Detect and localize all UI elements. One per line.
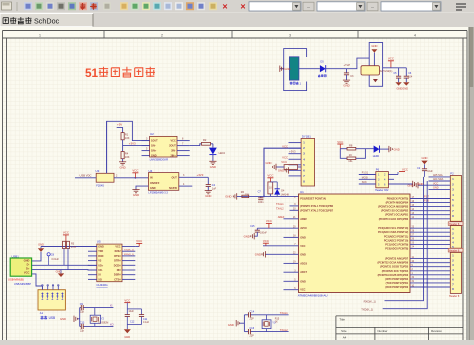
- svg-text:DSR#: DSR#: [114, 274, 121, 277]
- resistor R9 with VCC and ground: [266, 160, 302, 170]
- svg-text:+5V: +5V: [117, 123, 122, 127]
- svg-text:+3V3: +3V3: [289, 149, 296, 153]
- svg-text:GND: GND: [284, 67, 290, 71]
- svg-text:1N4148: 1N4148: [281, 193, 290, 196]
- svg-text:Title: Title: [339, 318, 345, 322]
- crystal Y3: [262, 315, 280, 332]
- svg-text:VCC: VCC: [300, 245, 305, 248]
- wire LED to ground: [212, 155, 214, 162]
- wire diode to transistor: [326, 58, 370, 69]
- wire JP1 to reset: [264, 148, 301, 196]
- svg-text:AREF: AREF: [278, 216, 285, 219]
- capacitor C14: [249, 310, 255, 320]
- capacitor C7: [258, 191, 265, 204]
- svg-text:C13: C13: [80, 322, 85, 325]
- svg-text:1OUT: 1OUT: [151, 140, 158, 143]
- svg-text:F2045: F2045: [96, 183, 104, 187]
- svg-text:PC1(ADC1 PCINT9): PC1(ADC1 PCINT9): [385, 243, 408, 246]
- toolbar icon at x=79: [79, 2, 87, 10]
- svg-text:OUT: OUT: [172, 177, 178, 180]
- svg-text:Header 6: Header 6: [449, 249, 460, 252]
- svg-text:A1: A1: [40, 311, 44, 315]
- svg-text:RXD(K_1): RXD(K_1): [124, 254, 134, 256]
- svg-text:100nF: 100nF: [260, 232, 267, 235]
- wire U4 pin4: [179, 183, 193, 186]
- svg-text:IN: IN: [150, 177, 153, 180]
- svg-text:D-: D-: [27, 263, 30, 267]
- svg-text:VCC: VCC: [115, 246, 120, 249]
- svg-text:VCC: VCC: [337, 140, 343, 144]
- svg-text:(PCINT3 OC2A MOSI)PB3: (PCINT3 OC2A MOSI)PB3: [378, 206, 409, 209]
- capacitor C8: [47, 253, 59, 266]
- toolbar: [0, 0, 474, 13]
- svg-text:AVCC: AVCC: [300, 227, 307, 230]
- toolbar combo box 2: [317, 2, 365, 11]
- svg-text:11.0592M: 11.0592M: [98, 322, 108, 324]
- svg-text:PC3(ADC3 PCINT11): PC3(ADC3 PCINT11): [384, 235, 408, 238]
- svg-text:USB-MINIB5P: USB-MINIB5P: [14, 282, 31, 286]
- svg-text:22P: 22P: [250, 318, 255, 321]
- wire +5V rail: [107, 121, 150, 173]
- power port VCC JP1 b: [282, 156, 288, 160]
- P6 right wire middle: [388, 178, 394, 180]
- U5 left pin wires: [88, 247, 97, 280]
- wire TXD to U1: [383, 181, 428, 309]
- svg-text:(RXD PCINT16)PD0: (RXD PCINT16)PD0: [385, 286, 408, 289]
- capacitor C5: [393, 68, 401, 82]
- ground right of LED D1: [389, 146, 400, 152]
- svg-text:2OUT: 2OUT: [169, 145, 176, 148]
- toolbar icon at x=142: [142, 2, 150, 10]
- net label +5V: [117, 123, 122, 127]
- ground U5 top: [38, 242, 44, 252]
- ground below C4: [205, 191, 212, 199]
- ground reset left: [225, 193, 236, 199]
- svg-text:22p: 22p: [80, 329, 85, 332]
- wire buzzer to diode: [299, 68, 320, 70]
- svg-text:GND: GND: [124, 335, 130, 339]
- power port VCC LED: [337, 140, 343, 149]
- capacitor C16: [249, 327, 255, 338]
- svg-text:10uF: 10uF: [128, 310, 134, 313]
- svg-text:VCC: VCC: [267, 174, 273, 178]
- svg-text:A4: A4: [343, 335, 347, 339]
- ground below C3: [343, 80, 350, 88]
- svg-text:D5: D5: [320, 60, 324, 64]
- resistor R2: [202, 138, 211, 145]
- svg-text:Number: Number: [378, 329, 388, 333]
- regulator U4: [148, 169, 178, 195]
- svg-text:P6: P6: [376, 167, 380, 171]
- svg-text:USB VDC: USB VDC: [80, 174, 92, 178]
- wire usb d-: [32, 264, 97, 266]
- svg-text:10K: 10K: [125, 155, 130, 159]
- connector A1: [38, 285, 65, 321]
- banner text 51 forum: [85, 66, 155, 80]
- capacitor C11: [127, 309, 149, 329]
- op-amp U2: [150, 132, 177, 161]
- svg-text:...: ...: [371, 4, 375, 9]
- header8 label mid: [448, 222, 463, 226]
- ground below R4: [119, 162, 126, 170]
- svg-text:TXD: TXD: [98, 250, 103, 253]
- svg-text:(PCINT2 SS OC1B)PB2: (PCINT2 SS OC1B)PB2: [381, 210, 409, 213]
- svg-text:GND: GND: [228, 323, 234, 327]
- svg-text:C12: C12: [130, 320, 135, 323]
- U1 right pin wires: [410, 197, 450, 287]
- svg-text:GND: GND: [300, 236, 306, 239]
- svg-text:R232: R232: [115, 250, 122, 253]
- toolbar icon at x=68: [68, 2, 76, 10]
- wire divider middle node: [123, 140, 150, 152]
- connector P2 header8 top: [450, 172, 461, 222]
- JP1 left pin wires: [289, 143, 302, 176]
- P6 right wires VCC: [388, 167, 408, 174]
- toolbar combo box 3: [381, 2, 441, 11]
- capacitor C12: [125, 309, 142, 325]
- header label mid2: [448, 248, 463, 252]
- resistor R8 top: [340, 144, 373, 150]
- ground crystal Y3: [228, 320, 245, 327]
- svg-text:+3V3: +3V3: [129, 141, 136, 145]
- svg-text:RTS#: RTS#: [114, 255, 121, 258]
- svg-text:1IN-: 1IN-: [151, 145, 156, 148]
- U2 left pins: [142, 138, 150, 156]
- svg-text:1K: 1K: [349, 153, 352, 157]
- svg-text:GNDGND: GNDGND: [397, 87, 409, 91]
- svg-text:×: ×: [240, 2, 245, 12]
- connector P3 header mid: [450, 226, 461, 249]
- svg-text:TXAL1: TXAL1: [280, 311, 288, 315]
- U1 right pin texts: [378, 198, 409, 290]
- svg-text:RI#: RI#: [117, 269, 122, 272]
- P6 ground right: [388, 181, 423, 187]
- svg-text:TXAL2: TXAL2: [280, 328, 288, 332]
- LED D1: [373, 146, 380, 158]
- toolbar combo box 1: [249, 2, 301, 11]
- svg-text:(PCINT21 OC0B T1)PD5: (PCINT21 OC0B T1)PD5: [380, 266, 409, 269]
- svg-text:PC0(ADC0 SCL PCINT13): PC0(ADC0 SCL PCINT13): [378, 227, 408, 230]
- buzzer LS1: [284, 49, 307, 91]
- toolbar icon at x=175: [175, 2, 183, 10]
- diode D5: [318, 60, 326, 77]
- svg-text:1IN+: 1IN+: [151, 150, 157, 153]
- svg-text:VCC: VCC: [263, 239, 269, 243]
- svg-text:Header 3X2: Header 3X2: [375, 189, 389, 192]
- fuse U3: [96, 169, 115, 187]
- svg-text:VCC: VCC: [24, 270, 30, 274]
- connector P6 ISP: [375, 167, 389, 192]
- svg-text:LED4: LED4: [219, 152, 226, 155]
- net label TXAL2: [276, 208, 284, 211]
- toolbar separator: [16, 2, 18, 11]
- power port VCC U5: [135, 239, 142, 246]
- wire crystal Y3 frame: [244, 315, 288, 332]
- svg-text:C15: C15: [250, 225, 255, 228]
- svg-text:1K: 1K: [275, 321, 278, 324]
- svg-text:GND: GND: [266, 161, 272, 165]
- resistor R4: [121, 152, 130, 160]
- svg-text:DY1B1: DY1B1: [302, 134, 311, 138]
- net label TXAL2 right: [280, 328, 288, 332]
- svg-text:VCC: VCC: [266, 219, 272, 223]
- svg-text:ON/OFF: ON/OFF: [150, 182, 160, 185]
- connector JP1: [301, 134, 315, 186]
- svg-text:+3V3: +3V3: [197, 173, 204, 177]
- svg-text:VCC: VCC: [388, 57, 394, 61]
- svg-text:2IN+: 2IN+: [170, 155, 176, 158]
- document tab: SchDoc: [0, 14, 93, 27]
- svg-text:USB: USB: [49, 316, 56, 320]
- resistor R6 on reset: [241, 191, 250, 198]
- svg-text:GND: GND: [56, 269, 62, 273]
- svg-text:SchDoc: SchDoc: [34, 16, 60, 25]
- power port VCC pullup: [63, 231, 69, 242]
- toolbar icon at x=131: [131, 2, 139, 10]
- svg-text:(PCINT7 XTAL2 TOSC2)PB7: (PCINT7 XTAL2 TOSC2)PB7: [300, 209, 333, 212]
- toolbar icon: red X 2: [240, 2, 245, 12]
- toolbar icon at x=120: [120, 2, 128, 10]
- svg-text:GND: GND: [278, 169, 284, 173]
- capacitor C4: [206, 184, 217, 190]
- toolbar button ... 2: [367, 2, 378, 11]
- toolbar icon at x=103: [103, 2, 111, 10]
- usb uart U5: [96, 240, 122, 288]
- connector P5 wires: [429, 174, 451, 190]
- power port VCC at fuse output: [132, 169, 138, 178]
- svg-text:PC4(ADC4 SDA PCINT12): PC4(ADC4 SDA PCINT12): [378, 231, 408, 234]
- net label +TLP: [344, 63, 351, 67]
- microcontroller U1: [298, 190, 410, 298]
- power port VCC JP1 a: [282, 144, 288, 148]
- svg-text:(PCINT20 XCK T0)PD4: (PCINT20 XCK T0)PD4: [382, 270, 409, 273]
- LED D3: [209, 144, 225, 155]
- ground left of buzzer: [280, 66, 291, 72]
- svg-text:LED0: LED0: [373, 155, 380, 158]
- svg-text:R8: R8: [349, 144, 353, 148]
- wire R4 to ground: [122, 159, 124, 162]
- capacitor C3: [344, 69, 354, 80]
- wire transistor output: [383, 67, 407, 69]
- svg-text:TXAL2: TXAL2: [276, 208, 284, 211]
- svg-text:RXD(K_1): RXD(K_1): [364, 300, 376, 304]
- svg-text:0.1uF: 0.1uF: [143, 321, 150, 324]
- svg-text:VCC: VCC: [171, 140, 176, 143]
- svg-text:XI: XI: [98, 274, 101, 277]
- svg-text:A04 SDA: A04 SDA: [433, 178, 444, 181]
- svg-text:PC2(ADC2 PCINT10): PC2(ADC2 PCINT10): [384, 239, 408, 242]
- svg-text:PB0(SCK PCINT5): PB0(SCK PCINT5): [387, 198, 409, 201]
- resistor R1: [121, 133, 130, 141]
- ground crystal Y2: [60, 316, 80, 322]
- svg-text:VCC: VCC: [124, 299, 130, 303]
- svg-text:0.01uF: 0.01uF: [52, 258, 60, 261]
- svg-text:×: ×: [222, 2, 227, 12]
- svg-text:GND: GND: [210, 165, 216, 169]
- wire to divider: [117, 128, 123, 133]
- net label XO: [110, 323, 114, 327]
- svg-text:UD-: UD-: [98, 269, 103, 272]
- svg-text:NC/FB: NC/FB: [169, 187, 177, 190]
- svg-text:AQY212(1): AQY212(1): [380, 70, 393, 73]
- U1 left pin texts: [300, 198, 333, 292]
- svg-text:(PCINT1 OC1A)PB1: (PCINT1 OC1A)PB1: [385, 214, 409, 217]
- power port VCC near transistor: [388, 57, 394, 68]
- ground for U4: [132, 190, 139, 198]
- svg-text:UD+: UD+: [98, 264, 104, 267]
- svg-text:10uF: 10uF: [427, 170, 433, 173]
- svg-text:GND: GND: [98, 246, 104, 249]
- header label bottom: [449, 295, 460, 298]
- svg-text:CH340G: CH340G: [96, 283, 108, 287]
- svg-text:VCC: VCC: [300, 289, 305, 292]
- net label +3V3 JP1: [289, 149, 296, 153]
- svg-text:10K: 10K: [125, 136, 130, 140]
- svg-text:P1.51: P1.51: [362, 172, 369, 175]
- net label USB VDC: [80, 174, 92, 178]
- title block: [336, 316, 463, 340]
- wire U5 gnd to symbol: [41, 246, 97, 248]
- svg-text:VCC: VCC: [281, 160, 287, 164]
- connector P4 header bottom: [450, 252, 461, 293]
- wire reset line: [237, 196, 299, 198]
- svg-text:TXD(K_1): TXD(K_1): [361, 308, 373, 312]
- toolbar icon at x=186: [186, 2, 194, 10]
- resistor R7 pullup: [267, 174, 273, 197]
- net labels on U5 uart wires: [124, 249, 134, 256]
- toolbar icon at x=57: [57, 2, 65, 10]
- wire fuse input: [75, 177, 96, 179]
- wire AVCC with VCC and C15: [244, 219, 299, 239]
- svg-text:LMV358IDGKR: LMV358IDGKR: [150, 157, 169, 161]
- svg-text:GND: GND: [433, 187, 439, 190]
- svg-text:RXD: RXD: [98, 255, 103, 258]
- power port VCC caps: [124, 299, 130, 309]
- svg-text:(PCINT19 OC2B INT1)PD3: (PCINT19 OC2B INT1)PD3: [378, 274, 409, 277]
- ground JP1: [278, 167, 289, 173]
- svg-text:R2: R2: [203, 138, 207, 142]
- svg-text:16L: 16L: [348, 159, 353, 163]
- wire RXD to U1: [385, 177, 425, 301]
- svg-text:PC0(ADC0 PCINT8): PC0(ADC0 PCINT8): [385, 247, 408, 250]
- svg-text:DCD#: DCD#: [114, 264, 121, 267]
- svg-text:GND: GND: [60, 317, 66, 321]
- svg-text:U2: U2: [150, 132, 154, 136]
- usb connector USB1: [8, 254, 32, 286]
- svg-text:PC6(RESET PCINT14): PC6(RESET PCINT14): [300, 198, 326, 201]
- diode D4: [270, 182, 289, 197]
- svg-text:(PCINT6 XTAL1 TOSC1)PB6: (PCINT6 XTAL1 TOSC1)PB6: [300, 205, 333, 208]
- crystal Y2: [90, 308, 108, 327]
- capacitor C13: [80, 322, 85, 333]
- svg-text:GND: GND: [300, 253, 306, 256]
- toolbar icon: red down arrow glyph: [81, 3, 85, 9]
- svg-text:P2: P2: [450, 172, 454, 176]
- net labels on right wires: [424, 196, 430, 203]
- svg-text:51: 51: [85, 66, 99, 80]
- svg-text:XI: XI: [110, 304, 113, 308]
- svg-text:LP2985AIM5-3.3: LP2985AIM5-3.3: [148, 191, 168, 195]
- net label TXAL1: [276, 203, 284, 206]
- svg-text:VCC: VCC: [402, 167, 408, 171]
- svg-text:AREF: AREF: [300, 218, 307, 221]
- svg-text:GND: GND: [244, 234, 250, 238]
- svg-text:GND: GND: [225, 195, 231, 199]
- svg-text:GND: GND: [150, 187, 156, 190]
- svg-text:MOSI: MOSI: [362, 177, 368, 180]
- svg-text:U3: U3: [96, 169, 100, 173]
- svg-text:GND: GND: [343, 84, 349, 88]
- svg-text:1uF: 1uF: [212, 187, 217, 190]
- wire usb d+: [32, 269, 97, 271]
- net label +3V3: [129, 141, 136, 145]
- svg-text:Revision: Revision: [431, 329, 442, 333]
- svg-text:ADC6: ADC6: [300, 262, 307, 265]
- svg-text:SCK: SCK: [362, 181, 367, 184]
- svg-text:104: 104: [408, 75, 413, 78]
- svg-text:GND: GND: [38, 242, 44, 246]
- svg-text:(PCINT23 AIN1)PD7: (PCINT23 AIN1)PD7: [385, 258, 409, 261]
- toolbar icon: new/folder: [2, 2, 12, 10]
- net label RXD: [364, 300, 376, 304]
- wire U4 out to +3V3 and C4: [179, 174, 209, 184]
- svg-text:VCC: VCC: [63, 231, 69, 235]
- wire crystal frame: [80, 308, 114, 327]
- toolbar icon at x=153: [153, 2, 161, 10]
- U1 left pin wires and numbers: [284, 197, 299, 290]
- svg-text:R1: R1: [125, 133, 129, 137]
- svg-text:USB-MINI(B): USB-MINI(B): [8, 277, 24, 281]
- svg-text:GND: GND: [371, 44, 377, 48]
- net label AREF: [278, 216, 285, 219]
- ground P5: [407, 182, 428, 188]
- wire fuse top: [106, 121, 108, 173]
- svg-text:GND: GND: [417, 182, 423, 186]
- svg-text:(PCINT4 MISO)PB4: (PCINT4 MISO)PB4: [386, 202, 409, 205]
- U5 right pin wires: [122, 247, 135, 280]
- wire U1 GND pin: [255, 251, 299, 257]
- net label TXAL1 right: [280, 311, 288, 315]
- toolbar icon at x=24: [24, 2, 32, 10]
- ground below LED: [209, 161, 216, 169]
- toolbar icon at x=46: [46, 2, 54, 10]
- svg-text:TXD(K_1): TXD(K_1): [124, 249, 134, 251]
- svg-text:VCC: VCC: [132, 169, 138, 173]
- svg-text:CTS#: CTS#: [114, 278, 121, 281]
- grounds below C5 C6: [395, 82, 409, 90]
- svg-text:TXAL1: TXAL1: [276, 203, 284, 206]
- ground above A1: [56, 269, 65, 277]
- svg-text:ATMEGA48/88/168-AU: ATMEGA48/88/168-AU: [298, 294, 328, 298]
- toolbar icon at x=35: [35, 2, 43, 10]
- wire fuse output to U4: [114, 175, 148, 179]
- resistor R3: [63, 241, 77, 269]
- svg-text:VCC: VCC: [282, 156, 288, 160]
- svg-text:+TLP: +TLP: [344, 63, 351, 67]
- net label XI: [110, 304, 113, 308]
- svg-text:(PCINT0 CLKO ICP1)PB0: (PCINT0 CLKO ICP1)PB0: [379, 218, 409, 221]
- P6 left wires: [359, 172, 376, 185]
- svg-text:GND: GND: [24, 259, 30, 263]
- wire usb vcc to A1: [32, 274, 43, 290]
- svg-text:...: ...: [307, 4, 311, 9]
- svg-text:GND: GND: [255, 253, 261, 257]
- capacitor C9: [80, 303, 85, 314]
- svg-text:A05 SCL: A05 SCL: [433, 174, 444, 177]
- transistor module U6: [361, 43, 392, 87]
- wire U2 to LED: [190, 144, 213, 146]
- svg-text:DTR#: DTR#: [114, 260, 121, 263]
